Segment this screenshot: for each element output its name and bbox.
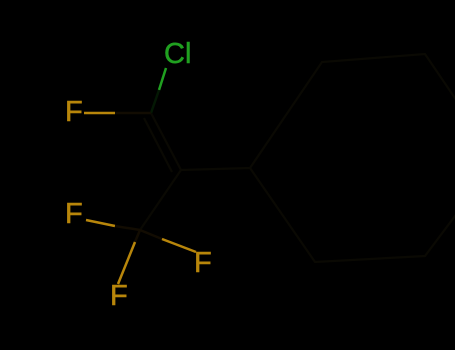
benzene ring C6H5 (dark) [250,54,455,262]
bond C2-ring (dark) [181,168,250,170]
bond C1-Cl (green, dims below y=88) [159,68,166,90]
atom label F (CF3 right) [194,247,212,280]
bond C2-CF3 (dark then bright near C) [140,170,181,230]
atom label F (CF3 bottom) [110,280,128,313]
atom label F (CF3 upper-left) [65,198,83,231]
bond F1-C1 (goldenrod, dims after x=115) [84,112,115,115]
CF3 bonds [86,220,115,226]
atom label Cl [164,38,191,71]
bond C1=C2 double (dark) [151,113,181,170]
atom label F (vinyl) [65,96,83,129]
